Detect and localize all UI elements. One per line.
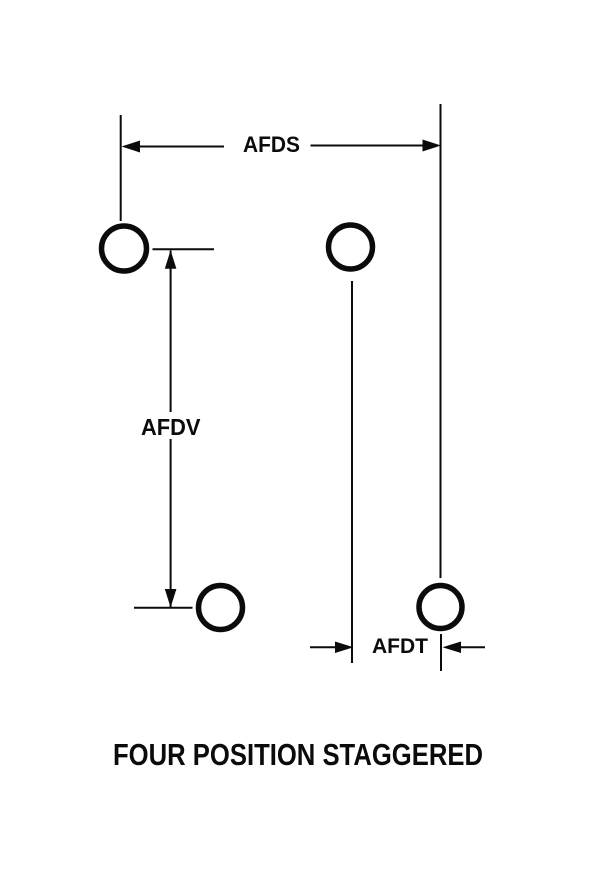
AFDV up arrowhead [165,250,177,269]
AFDV down arrowhead [165,589,177,608]
AFDT left arrowhead [335,642,354,654]
white mask behind AFDV label [138,412,204,439]
AFDV dimension line [170,251,172,608]
AFDT left tail line [310,646,337,648]
hole P1 top-left circle [102,226,147,271]
stub line left of hole P3 [134,607,193,609]
AFDS left arrowhead [122,141,141,153]
svg-text:AFDS: AFDS [243,132,300,157]
hole P2 top-middle circle [329,225,373,269]
hole P3 bottom-left circle [199,586,243,630]
right extension line upper segment [440,104,442,578]
AFDS right arrowhead [423,140,442,152]
stub line right of hole P1 [153,248,215,250]
AFDT right tail line [459,646,485,648]
svg-text:AFDT: AFDT [372,634,428,658]
AFDS dimension line right segment [311,145,426,147]
hole P4 bottom-right circle [419,586,462,629]
right extension line lower segment [440,634,442,671]
svg-text:FOUR POSITION STAGGERED: FOUR POSITION STAGGERED [113,737,483,772]
AFDT right arrowhead [443,642,462,654]
AFDS dimension line left segment [138,146,224,148]
extension line above hole P1 [120,115,122,221]
extension line below hole P2 [351,281,353,663]
svg-text:AFDV: AFDV [141,414,201,440]
